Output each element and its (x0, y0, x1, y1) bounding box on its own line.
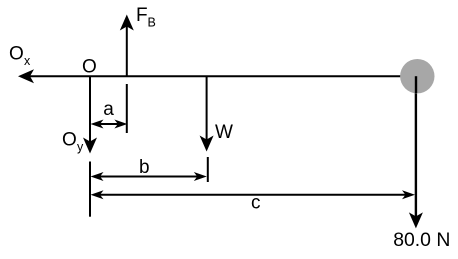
svg-text:c: c (251, 192, 261, 213)
svg-text:O: O (62, 129, 77, 150)
svg-text:x: x (24, 54, 31, 68)
svg-text:F: F (136, 5, 148, 26)
svg-text:80.0 N: 80.0 N (393, 229, 450, 251)
svg-text:b: b (139, 157, 150, 178)
svg-text:a: a (103, 99, 114, 120)
svg-text:B: B (148, 16, 156, 30)
svg-text:y: y (77, 140, 84, 154)
svg-text:W: W (215, 122, 233, 143)
svg-text:O: O (82, 57, 97, 78)
svg-text:O: O (9, 43, 24, 64)
